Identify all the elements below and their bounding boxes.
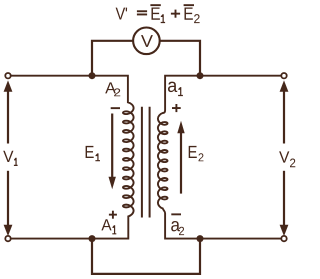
wire bottom loop	[92, 239, 200, 274]
terminal bottom right	[281, 236, 286, 241]
label a1	[168, 82, 183, 96]
V1 label	[3, 151, 17, 166]
V1 arrow lower	[4, 171, 13, 236]
junction dot bottom left	[89, 235, 96, 242]
wire right outer + secondary winding	[158, 76, 282, 239]
core line left	[141, 107, 143, 218]
E1 arrow down	[109, 114, 116, 190]
polarity plus under a1	[172, 104, 181, 112]
polarity minus under A2	[111, 107, 120, 109]
terminal top right	[281, 73, 286, 78]
E1 label	[86, 146, 100, 161]
formula node label V' = E1bar + E2bar	[116, 4, 200, 23]
polarity plus above A1	[109, 211, 117, 219]
terminal bottom left	[5, 236, 10, 241]
V1 arrow upper	[4, 80, 13, 143]
E2 label	[189, 146, 204, 161]
V2 label	[279, 151, 295, 167]
wire voltmeter loop top	[92, 41, 200, 76]
junction dot bottom right	[197, 235, 204, 242]
wire left outer + primary winding	[11, 76, 134, 239]
junction dot top left	[89, 72, 96, 79]
polarity minus above a2	[171, 213, 181, 215]
terminal top left	[5, 73, 10, 78]
V2 arrow lower	[280, 171, 289, 236]
junction dot top right	[197, 72, 204, 79]
label a2	[171, 221, 184, 235]
E2 arrow up	[177, 121, 184, 194]
core line right	[149, 107, 151, 218]
V2 arrow upper	[280, 80, 289, 143]
label A2	[105, 82, 120, 96]
label A1	[101, 219, 116, 234]
voltmeter U1	[133, 28, 160, 55]
